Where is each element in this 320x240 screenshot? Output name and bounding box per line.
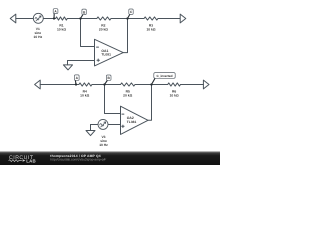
- wire OA2 output up to node C_inverted: [148, 85, 152, 121]
- wire R5 to node C_inverted: [135, 84, 152, 86]
- op-amp OA1 triangle: [95, 39, 124, 66]
- wire R1 to node B: [67, 18, 80, 20]
- wire node B2 to R5: [105, 84, 121, 86]
- svg-text:10 kΩ: 10 kΩ: [170, 93, 179, 97]
- wire terminal to node A2: [40, 84, 79, 86]
- node A flag: [53, 14, 55, 19]
- ground symbol (V3): [86, 125, 95, 136]
- wire node B to R2: [81, 18, 97, 20]
- voltage source V1 (sine): [33, 13, 43, 23]
- svg-text:20 kΩ: 20 kΩ: [99, 27, 108, 31]
- wire ground to OA1 non-inverting input: [68, 60, 95, 62]
- wire node B down to OA1 inverting input: [81, 19, 95, 47]
- resistor R2: [97, 17, 111, 20]
- ground symbol (OA1 +): [63, 61, 72, 70]
- terminal OUT_C (top-right output): [180, 14, 186, 23]
- resistor R6: [168, 83, 181, 86]
- node C_inverted flag: [152, 78, 156, 84]
- wire R3 to output terminal: [158, 18, 180, 20]
- node B2 flag (bottom): [105, 80, 108, 84]
- wire node B2 down to OA2 inverting input: [105, 85, 121, 114]
- svg-text:TL081: TL081: [127, 120, 137, 124]
- resistor R4: [79, 83, 92, 86]
- CircuitLab logo: [9, 155, 36, 163]
- terminal OUT_C2 (bottom-right output): [203, 80, 209, 89]
- wire R4 to node B2: [92, 84, 105, 86]
- OA2 minus pin mark: [122, 113, 124, 115]
- svg-text:10 kΩ: 10 kΩ: [57, 27, 66, 31]
- wire V3 to OA2 non-inverting input: [108, 124, 121, 126]
- svg-text:10 kΩ: 10 kΩ: [146, 27, 155, 31]
- svg-text:10 Hz: 10 Hz: [99, 143, 108, 147]
- wire ground to V3: [91, 124, 99, 126]
- terminal IN_A2 (bottom-left input): [35, 80, 41, 89]
- wire V1 to node A: [43, 18, 55, 20]
- wire R2 to node C: [111, 18, 128, 20]
- svg-text:C_inverted: C_inverted: [157, 74, 173, 78]
- svg-text:http:⁄⁄circuitlab.com⁄c⁄v5u2tq: http:⁄⁄circuitlab.com⁄c⁄v5u2tq⁄op-amp-q4…: [50, 158, 106, 162]
- svg-text:10 kΩ: 10 kΩ: [80, 93, 89, 97]
- resistor R3: [144, 17, 158, 20]
- voltage source V3 (sine): [98, 119, 108, 129]
- svg-text:LAB: LAB: [26, 158, 36, 163]
- wire node C_inverted to R6: [152, 84, 168, 86]
- svg-text:TL081: TL081: [101, 53, 111, 57]
- resistor R1: [56, 17, 68, 20]
- OA2 plus pin mark: [122, 125, 124, 127]
- node C flag: [128, 14, 130, 18]
- OA1 minus pin mark: [97, 46, 99, 48]
- svg-text:10 Hz: 10 Hz: [33, 35, 42, 39]
- op-amp OA2 triangle: [121, 106, 149, 134]
- svg-text:20 kΩ: 20 kΩ: [123, 93, 132, 97]
- resistor R5: [121, 83, 136, 86]
- terminal IN_A (top-left input): [10, 14, 16, 23]
- wire R6 to output terminal: [181, 84, 204, 86]
- node B flag: [81, 15, 83, 19]
- wire terminal to V1: [16, 18, 34, 20]
- OA1 plus pin mark: [97, 59, 99, 61]
- wire OA1 output up to node C: [123, 19, 127, 53]
- node A2 flag (bottom): [74, 80, 77, 84]
- wire node C to R3: [128, 18, 145, 20]
